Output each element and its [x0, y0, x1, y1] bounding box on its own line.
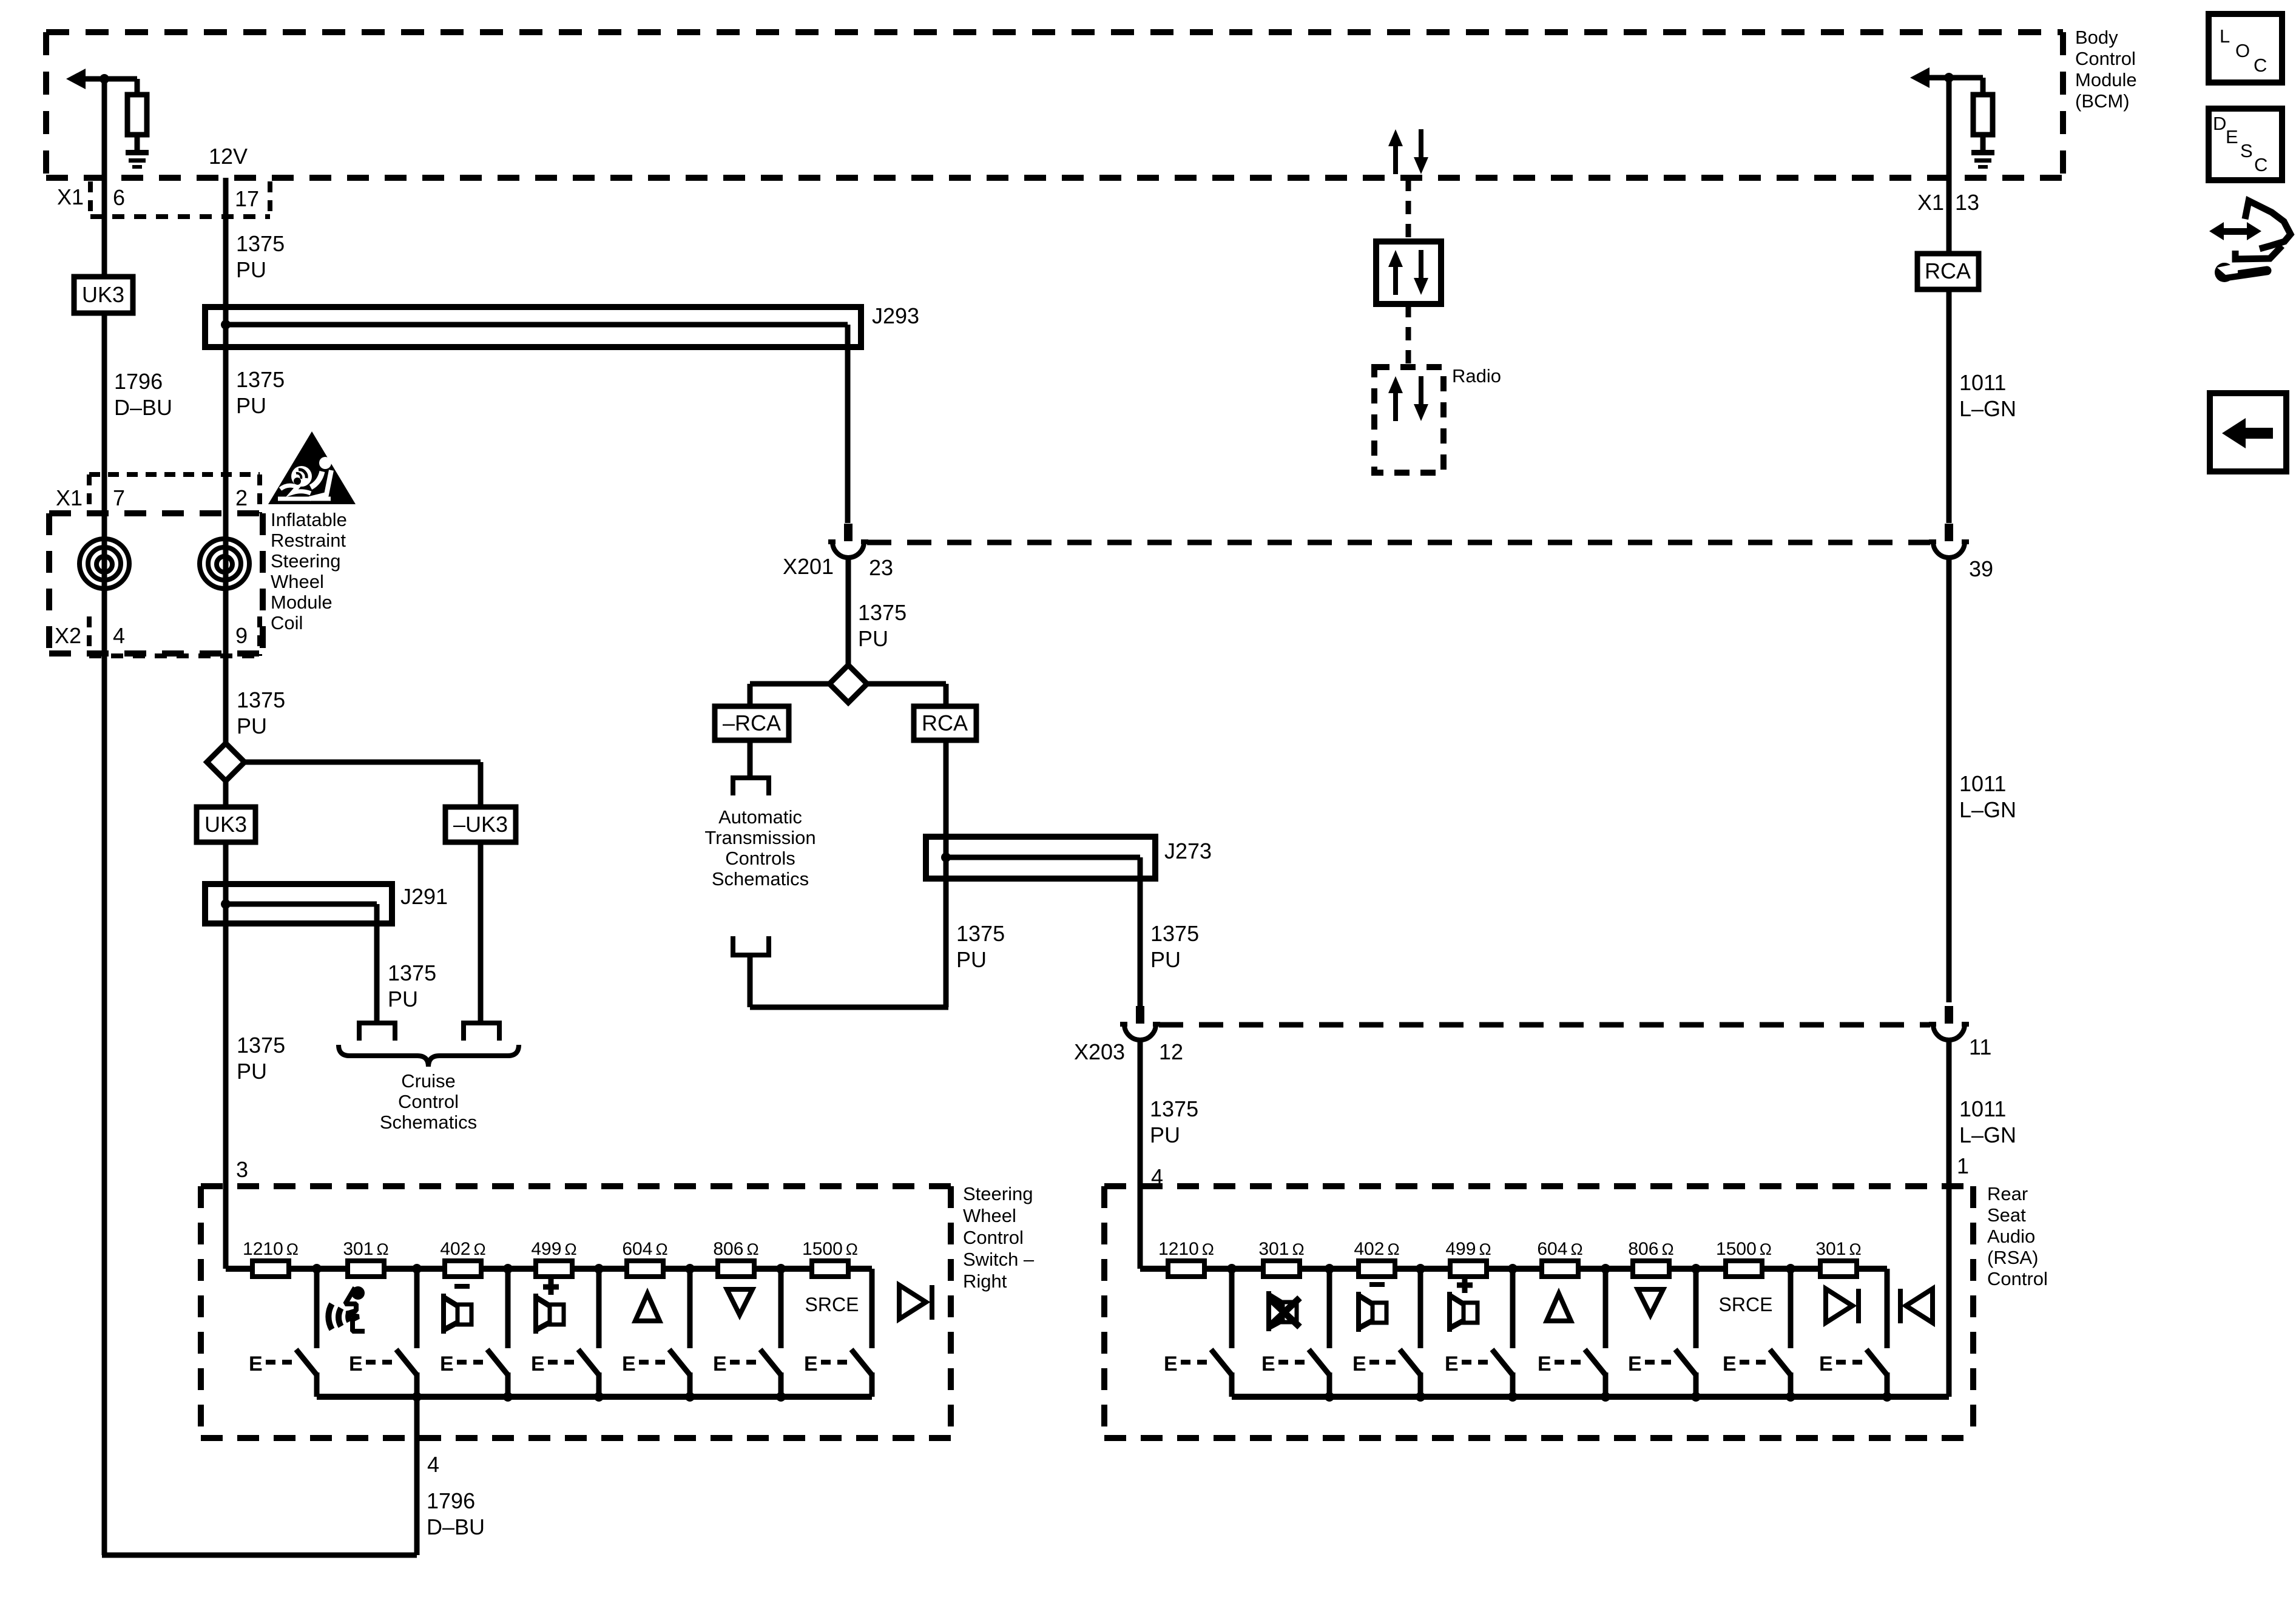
pin 7: [113, 485, 125, 510]
svg-text:E: E: [622, 1352, 636, 1376]
back arrow box: [2210, 393, 2286, 471]
svg-text:2: 2: [235, 485, 248, 510]
svg-text:12: 12: [1159, 1039, 1183, 1064]
label J291: [400, 884, 448, 909]
dashed inter-harness line X203 to 11: [1159, 1022, 1930, 1028]
module box Steering Wheel Control Switch - Right: [201, 1186, 951, 1438]
switch S2 (SWC): [349, 1269, 417, 1397]
svg-text:X1: X1: [56, 485, 83, 510]
svg-text:E: E: [1538, 1352, 1551, 1376]
node top bus junction 6 (RSA): [1691, 1264, 1701, 1274]
wire 1011 L-GN right vertical: [1947, 78, 1952, 1397]
icon volume up (RSA): [1447, 1277, 1477, 1332]
svg-text:–UK3: –UK3: [453, 812, 508, 837]
pin 23: [869, 555, 893, 580]
svg-text:9: 9: [235, 623, 248, 648]
svg-text:X1: X1: [1917, 190, 1944, 215]
resistor R2 301ohm (SWC): [343, 1239, 388, 1277]
svg-text:Radio: Radio: [1452, 365, 1501, 387]
node junction right BCM: [1944, 73, 1954, 83]
switch S6 (SWC): [713, 1269, 781, 1397]
terminal to ATC schematics (bottom): [733, 936, 769, 955]
node bottom bus junction 3 (SWC): [594, 1392, 604, 1402]
wire RCA down through J273: [944, 740, 949, 1007]
node bottom bus junction 4 (SWC): [685, 1392, 695, 1402]
resistor R17 1500ohm (RSA): [1716, 1239, 1772, 1277]
svg-text:806Ω: 806Ω: [1628, 1239, 1673, 1259]
node split diamond (RCA / -RCA): [829, 665, 867, 703]
switch S12 (RSA): [1261, 1269, 1329, 1397]
coil L1 (left, SWC signal): [79, 539, 129, 589]
coil L2 (right, 12V feed): [200, 539, 249, 589]
resistor BCM internal pull-up (right): [1973, 78, 1993, 150]
svg-text:C: C: [2254, 154, 2267, 175]
svg-text:UK3: UK3: [204, 812, 247, 837]
svg-text:23: 23: [869, 555, 893, 580]
label wire 1796 D-BU upper: [114, 369, 172, 420]
svg-text:D: D: [2213, 113, 2226, 134]
switch S7 (SWC): [804, 1269, 872, 1397]
label wire 1375 PU below J293 (left): [236, 367, 285, 418]
switch S1 (SWC): [249, 1269, 317, 1397]
pin 4 SWC: [427, 1452, 439, 1477]
switch S14 (RSA): [1445, 1269, 1513, 1397]
brace cruise control: [339, 1045, 519, 1067]
module box Rear Seat Audio (RSA) Control: [1104, 1186, 1973, 1438]
svg-text:O: O: [2235, 40, 2250, 61]
dashed wire BCM to serial box: [1406, 178, 1411, 241]
svg-text:E: E: [249, 1352, 263, 1376]
wire RCA return to terminal: [750, 954, 948, 1007]
wire J291 drop to cruise terminal: [374, 923, 380, 1021]
connector X1 coil (pins 7,2): [89, 474, 260, 513]
node bottom bus junction 3 (RSA): [1508, 1392, 1518, 1402]
wire pin3 entry + resistor bus (left box): [226, 1266, 872, 1272]
label wire 1375 PU above pin 3: [237, 1033, 285, 1084]
bottom common bus (RSA box): [1232, 1394, 1949, 1400]
label Inflatable Restraint Steering Wheel Module Coil: [271, 509, 347, 633]
label Body Control Module (BCM): [2075, 27, 2137, 112]
svg-text:E: E: [1628, 1352, 1642, 1376]
net label box -RCA: [715, 706, 789, 740]
resistor R16 806ohm (RSA): [1628, 1239, 1673, 1277]
ground BCM internal (left): [126, 150, 149, 169]
svg-text:301Ω: 301Ω: [1258, 1239, 1304, 1259]
fuse label box UK3 (left wire): [74, 277, 133, 313]
svg-text:11: 11: [1969, 1035, 1991, 1059]
svg-text:1210Ω: 1210Ω: [1158, 1239, 1214, 1259]
terminal to cruise control (right): [464, 1023, 499, 1041]
svg-text:604Ω: 604Ω: [1537, 1239, 1582, 1259]
wire 1375 PU from J293 to X201: [845, 325, 851, 523]
wire 1796 D-BU left vertical: [102, 79, 107, 1555]
resistor R11 1210ohm (RSA): [1158, 1239, 1214, 1277]
svg-text:13: 13: [1955, 190, 1979, 215]
resistor R4 499ohm (SWC): [531, 1239, 576, 1277]
svg-text:RCA: RCA: [922, 711, 968, 735]
label wire 1011 L-GN upper: [1959, 370, 2016, 421]
wire X201 to diamond: [846, 558, 851, 665]
node splice J273 tap: [941, 852, 951, 862]
node splice J291 tap: [221, 899, 231, 909]
svg-text:X1: X1: [57, 184, 84, 209]
svg-text:402Ω: 402Ω: [440, 1239, 485, 1259]
switch S3 (SWC): [440, 1269, 508, 1397]
resistor R18 301ohm (RSA): [1815, 1239, 1861, 1277]
node junction left BCM: [100, 74, 109, 84]
pin 39: [1969, 556, 1993, 581]
resistor R6 806ohm (SWC): [713, 1239, 758, 1277]
node bottom bus junction 1 (RSA): [1325, 1392, 1334, 1402]
label wire 1011 L-GN middle: [1959, 771, 2016, 822]
node top bus junction 1 (SWC): [312, 1264, 322, 1274]
node bottom bus junction 4 (RSA): [1601, 1392, 1610, 1402]
wire -RCA to terminal: [748, 740, 753, 775]
svg-text:E: E: [531, 1352, 545, 1376]
node bottom bus junction 2 (SWC): [503, 1392, 513, 1402]
icon seek down (SWC): [727, 1289, 752, 1315]
pin 4 coil: [113, 623, 125, 648]
switch S15 (RSA): [1538, 1269, 1606, 1397]
splice pack J291: [205, 884, 392, 923]
module box Inflatable Restraint Steering Wheel Module Coil: [49, 513, 263, 653]
svg-text:E: E: [1164, 1352, 1178, 1376]
svg-text:499Ω: 499Ω: [531, 1239, 576, 1259]
module box Radio: [1374, 367, 1443, 473]
svg-text:1: 1: [1957, 1153, 1969, 1178]
connector X201 pin 23: [828, 524, 868, 558]
icon next track (RSA): [1826, 1289, 1861, 1323]
node top bus junction 4 (SWC): [594, 1264, 604, 1274]
pin 11: [1969, 1035, 1991, 1059]
connector X2 coil (pins 4,9): [89, 616, 260, 656]
icon voice recognition: [328, 1286, 365, 1331]
terminal to ATC schematics (top): [733, 778, 769, 795]
switch S18 (RSA): [1819, 1269, 1887, 1397]
node bottom bus junction 1 (SWC): [412, 1392, 422, 1402]
svg-text:1500Ω: 1500Ω: [802, 1239, 858, 1259]
svg-text:X2: X2: [55, 623, 81, 648]
label wire 1375 PU (RCA drop): [956, 921, 1005, 972]
label J273: [1164, 839, 1212, 863]
node top bus junction 2 (RSA): [1325, 1264, 1334, 1274]
ground BCM internal (right): [1971, 150, 1994, 169]
node top bus junction 7 (RSA): [1786, 1264, 1795, 1274]
label 12V: [209, 144, 248, 169]
wire -UK3 to terminal: [478, 842, 484, 1021]
bottom common bus (left box): [317, 1394, 872, 1400]
arrow to BCM internal logic (right): [1910, 67, 1983, 88]
icon seek down (RSA): [1638, 1289, 1663, 1315]
svg-text:4: 4: [427, 1452, 439, 1477]
fuse label box -UK3: [445, 807, 516, 842]
wire X203 to RSA pin 4: [1138, 1041, 1143, 1269]
svg-text:806Ω: 806Ω: [713, 1239, 758, 1259]
svg-text:E: E: [804, 1352, 818, 1376]
label wire 1375 PU below pin 17: [236, 231, 285, 282]
serial data box: [1376, 241, 1441, 304]
node top bus junction 6 (SWC): [776, 1264, 786, 1274]
switch S16 (RSA): [1628, 1269, 1696, 1397]
label Cruise Control Schematics: [380, 1070, 477, 1133]
wire to RCA: [867, 684, 946, 706]
svg-text:E: E: [713, 1352, 727, 1376]
svg-text:J293: J293: [872, 303, 919, 328]
node top bus junction 3 (RSA): [1416, 1264, 1425, 1274]
svg-text:E: E: [2226, 126, 2238, 147]
label Automatic Transmission Controls Schematics: [704, 806, 815, 890]
resistor R14 499ohm (RSA): [1445, 1239, 1491, 1277]
svg-text:301Ω: 301Ω: [343, 1239, 388, 1259]
splice pack J273: [926, 837, 1155, 879]
wire to -RCA: [750, 684, 829, 706]
resistor R12 301ohm (RSA): [1258, 1239, 1304, 1277]
svg-text:E: E: [440, 1352, 454, 1376]
LOC reference box: [2209, 14, 2282, 83]
pin 6: [113, 185, 125, 210]
pin 2: [235, 485, 248, 510]
label SRCE (SWC): [805, 1294, 859, 1315]
label X2: [55, 623, 81, 648]
svg-text:X201: X201: [783, 554, 834, 579]
node bottom bus junction 7 (RSA): [1882, 1392, 1892, 1402]
svg-text:1210Ω: 1210Ω: [243, 1239, 299, 1259]
connector pin 11: [1929, 1006, 1969, 1040]
resistor bus (RSA box): [1140, 1266, 1887, 1272]
DESC reference box: [2209, 109, 2282, 180]
label X1 right: [1917, 190, 1944, 215]
svg-text:L: L: [2220, 25, 2230, 47]
svg-text:604Ω: 604Ω: [622, 1239, 667, 1259]
resistor R13 402ohm (RSA): [1354, 1239, 1399, 1277]
label wire 1796 D-BU lower: [427, 1488, 485, 1539]
svg-text:J273: J273: [1164, 839, 1212, 863]
connector X203 pin 12: [1120, 1006, 1160, 1040]
node bottom bus junction 2 (RSA): [1416, 1392, 1425, 1402]
connector pin 39: [1929, 524, 1969, 558]
label wire 1375 PU (J291 drop): [388, 960, 436, 1011]
switch S17 (RSA): [1723, 1269, 1791, 1397]
svg-text:–RCA: –RCA: [723, 711, 781, 735]
svg-text:C: C: [2254, 55, 2267, 76]
fuse label box UK3 (main wire): [197, 807, 255, 842]
icon volume down (SWC): [441, 1284, 471, 1334]
svg-text:499Ω: 499Ω: [1445, 1239, 1491, 1259]
svg-text:S: S: [2240, 140, 2253, 161]
wire branch to -UK3: [245, 762, 481, 806]
icon next track (SWC): [899, 1285, 934, 1320]
pin 13: [1955, 190, 1979, 215]
svg-text:7: 7: [113, 485, 125, 510]
diagnostic arrow-wrench icon: [2209, 201, 2291, 282]
node splice J293 tap: [221, 320, 231, 329]
dashed wire serial box to radio: [1406, 304, 1411, 367]
resistor R1 1210ohm (SWC): [243, 1239, 299, 1277]
label X201: [783, 554, 834, 579]
resistor R3 402ohm (SWC): [440, 1239, 485, 1277]
node split diamond (1375 PU to UK3/-UK3): [207, 743, 245, 781]
node bottom bus junction 5 (RSA): [1691, 1392, 1701, 1402]
label X1 coil: [56, 485, 83, 510]
switch S13 (RSA): [1352, 1269, 1420, 1397]
icon volume up (SWC): [533, 1279, 564, 1334]
pin 12: [1159, 1039, 1183, 1064]
resistor R15 604ohm (RSA): [1537, 1239, 1582, 1277]
net label box RCA (right): [1917, 254, 1979, 289]
node top bus junction 1 (RSA): [1227, 1264, 1237, 1274]
svg-text:E: E: [349, 1352, 363, 1376]
wire 1796 D-BU bottom horizontal: [102, 1553, 417, 1558]
module box U1 Body Control Module (BCM): [46, 32, 2063, 178]
node top bus junction 5 (RSA): [1601, 1264, 1610, 1274]
label wire 1375 PU below coil: [237, 687, 285, 738]
pin 4 RSA: [1151, 1164, 1163, 1189]
switch S4 (SWC): [531, 1269, 599, 1397]
svg-text:39: 39: [1969, 556, 1993, 581]
svg-text:3: 3: [236, 1157, 248, 1182]
connector X1 BCM (pins 6,17): [90, 181, 270, 217]
node bottom bus junction 5 (SWC): [776, 1392, 786, 1402]
label wire 1375 PU below J293 (right drop): [858, 600, 907, 651]
svg-text:RCA: RCA: [1925, 258, 1971, 283]
icon volume down (RSA): [1356, 1282, 1386, 1332]
svg-text:E: E: [1723, 1352, 1737, 1376]
switch S11 (RSA): [1164, 1269, 1232, 1397]
icon mute (RSA): [1266, 1291, 1300, 1331]
node top bus junction 5 (SWC): [685, 1264, 695, 1274]
warning triangle airbag icon: [268, 431, 356, 504]
svg-text:4: 4: [113, 623, 125, 648]
label wire 1011 L-GN lower: [1959, 1096, 2016, 1147]
node top bus junction 2 (SWC): [412, 1264, 422, 1274]
arrow to BCM internal logic (left): [66, 69, 137, 89]
label X203: [1074, 1039, 1125, 1064]
resistor BCM internal pull-up (left): [127, 79, 147, 150]
net label box RCA (middle): [914, 706, 976, 740]
svg-text:X203: X203: [1074, 1039, 1125, 1064]
node bottom bus junction 6 (RSA): [1786, 1392, 1795, 1402]
svg-text:6: 6: [113, 185, 125, 210]
serial data arrows inside BCM: [1388, 129, 1428, 174]
label Rear Seat Audio (RSA) Control: [1987, 1183, 2048, 1289]
label J293: [872, 303, 919, 328]
icon previous track (RSA): [1898, 1289, 1933, 1323]
wire 12V / 1375 PU main vertical: [223, 178, 229, 1269]
svg-text:E: E: [1261, 1352, 1275, 1376]
wire J273 to X203: [1138, 879, 1143, 1006]
icon seek up (SWC): [635, 1294, 660, 1321]
node top bus junction 3 (SWC): [503, 1264, 513, 1274]
svg-text:402Ω: 402Ω: [1354, 1239, 1399, 1259]
terminal to cruise control (left): [359, 1023, 395, 1041]
pin 1 RSA: [1957, 1153, 1969, 1178]
svg-text:E: E: [1445, 1352, 1459, 1376]
label Steering Wheel Control Switch - Right: [963, 1183, 1035, 1292]
label SRCE (RSA): [1719, 1294, 1773, 1315]
label X1: [57, 184, 84, 209]
svg-text:12V: 12V: [209, 144, 248, 169]
label Radio: [1452, 365, 1501, 387]
pin 3: [236, 1157, 248, 1182]
svg-text:1500Ω: 1500Ω: [1716, 1239, 1772, 1259]
svg-text:E: E: [1352, 1352, 1366, 1376]
svg-text:AutomaticTransmissionControlsS: AutomaticTransmissionControlsSchematics: [704, 806, 815, 890]
resistor R5 604ohm (SWC): [622, 1239, 667, 1277]
node top bus junction 4 (RSA): [1508, 1264, 1518, 1274]
svg-text:UK3: UK3: [82, 282, 124, 307]
svg-text:SRCE: SRCE: [805, 1294, 859, 1315]
svg-text:SRCE: SRCE: [1719, 1294, 1773, 1315]
switch S5 (SWC): [622, 1269, 690, 1397]
icon seek up (RSA): [1547, 1294, 1571, 1321]
svg-text:J291: J291: [400, 884, 448, 909]
label wire 1375 PU (J273 drop): [1150, 921, 1199, 972]
svg-text:17: 17: [235, 186, 259, 211]
svg-text:301Ω: 301Ω: [1815, 1239, 1861, 1259]
wire SWC common to pin 4: [414, 1397, 420, 1555]
splice pack J293: [205, 307, 861, 347]
dashed inter-harness line X201 to 39: [867, 540, 1930, 545]
label wire 1375 PU above RSA pin 4: [1150, 1096, 1198, 1147]
svg-text:E: E: [1819, 1352, 1833, 1376]
pin 17: [235, 186, 259, 211]
pin 9 coil: [235, 623, 248, 648]
resistor R7 1500ohm (SWC): [802, 1239, 858, 1277]
